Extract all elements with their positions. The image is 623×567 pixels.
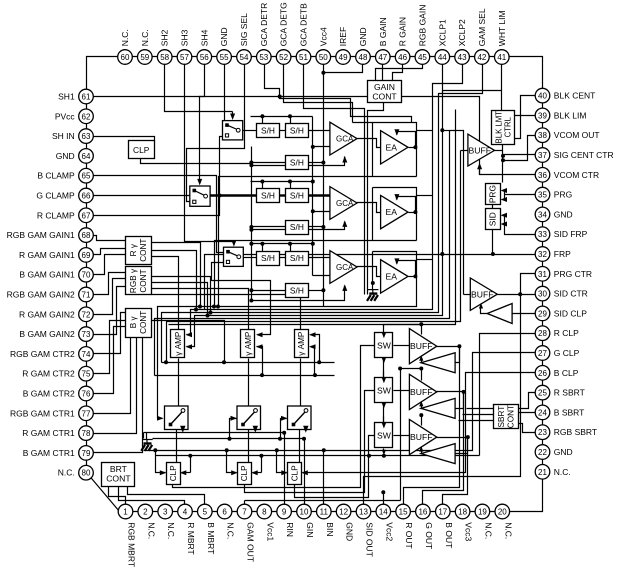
wire B gamma CONT out (152, 321, 225, 363)
svg-text:N.C.: N.C. (554, 467, 571, 477)
arrowhead (501, 188, 508, 193)
svg-text:12: 12 (339, 508, 348, 517)
pin 77 RGB GAM CTR1 (79, 406, 94, 421)
wire R gamma CONT out1 (152, 243, 201, 307)
svg-text:43: 43 (458, 53, 467, 62)
svg-text:44: 44 (438, 53, 447, 62)
block SW 3 (375, 423, 393, 448)
svg-text:SW: SW (377, 431, 392, 441)
svg-text:S/H: S/H (261, 191, 275, 201)
arrowhead (382, 423, 386, 429)
arrowhead (281, 416, 288, 421)
wire TB join (143, 433, 145, 439)
wire clamp bus to S/H C3 (252, 290, 286, 292)
svg-text:29: 29 (538, 309, 547, 318)
pin 63 SH IN (79, 129, 94, 144)
junction (317, 360, 321, 364)
wire to GCA1 lower in (313, 146, 330, 148)
pin 80 N.C. (79, 465, 94, 480)
wire gamma AMP1 to switch (178, 359, 180, 407)
op-amp EA2 (381, 195, 408, 228)
wire S/H B3 top stub (290, 244, 292, 252)
svg-text:RGB SBRT: RGB SBRT (554, 427, 597, 437)
svg-text:28: 28 (538, 329, 547, 338)
svg-text:SH1: SH1 (58, 92, 75, 102)
svg-text:RGB GAM CTR1: RGB GAM CTR1 (10, 408, 75, 418)
pin 49 IREF (336, 50, 351, 65)
svg-text:GND: GND (345, 522, 355, 541)
wire IREF (324, 65, 363, 73)
svg-text:GCA: GCA (336, 135, 354, 144)
pin 22 GND (535, 445, 550, 460)
wire SW3 to BUFF (394, 435, 410, 437)
arrowhead (251, 470, 258, 475)
arrowhead (419, 446, 423, 452)
pin 72 R GAM GAIN2 (79, 307, 94, 322)
svg-text:Vcc3: Vcc3 (464, 522, 474, 541)
block B gamma CONT (126, 309, 152, 338)
block PRG (486, 184, 501, 205)
pin 73 B GAM GAIN2 (79, 327, 94, 342)
pin 47 B GAIN (376, 50, 391, 65)
arrowhead (253, 426, 258, 433)
svg-text:25: 25 (538, 389, 547, 398)
svg-text:SID: SID (488, 212, 498, 226)
svg-text:G CLAMP: G CLAMP (36, 191, 75, 201)
pin 4 R MBRT (178, 504, 193, 519)
wire SW1 top (383, 326, 385, 333)
wire Vcc4 drop (323, 65, 325, 307)
pin 10 GIN (297, 504, 312, 519)
wire pin79 riser (94, 337, 143, 453)
svg-text:42: 42 (477, 53, 486, 62)
wire VCOM CTR feedback (480, 169, 536, 175)
wire EA1 loop left (372, 123, 374, 177)
wire Vcc2 riser (383, 493, 385, 505)
junction (419, 322, 423, 326)
junction (288, 242, 292, 246)
wire inv3 feedback (421, 450, 422, 454)
wire switch1 to CLP1 (176, 430, 178, 463)
svg-text:38: 38 (538, 131, 547, 140)
junction (501, 154, 505, 158)
wire to B OUT (443, 438, 468, 505)
junction (313, 373, 317, 377)
pin 1 RGB MBRT (118, 504, 133, 519)
svg-text:GAM OUT: GAM OUT (246, 522, 256, 562)
pin 31 PRG CTR (535, 267, 550, 282)
svg-text:XCLP1: XCLP1 (437, 19, 447, 46)
svg-text:20: 20 (498, 508, 507, 517)
svg-text:SH2: SH2 (160, 29, 170, 46)
junction (321, 161, 325, 165)
ground analog GND under EA3 (368, 289, 379, 291)
switch input select row1 (223, 121, 243, 140)
svg-text:2: 2 (143, 508, 148, 517)
wire EA2 loop top (373, 188, 417, 241)
wire R CLP to TB4 (480, 334, 536, 456)
svg-text:BRT: BRT (110, 464, 128, 474)
pin 70 B GAM GAIN1 (79, 267, 94, 282)
block SBRT CONT (494, 405, 519, 429)
svg-text:Vcc4: Vcc4 (318, 27, 328, 46)
wire EA3 out run (158, 306, 417, 419)
block CLP 2 (output clamp) (238, 463, 252, 485)
block GAIN CONT (368, 81, 402, 103)
block R gamma CONT (126, 237, 152, 265)
ground GND bottom-left (142, 439, 153, 441)
pin 69 R GAM GAIN1 (79, 248, 94, 263)
junction (278, 437, 282, 441)
buffer BUFF out 1 (409, 329, 436, 364)
pin 54 SIG SEL (237, 50, 252, 65)
svg-text:8: 8 (262, 508, 267, 517)
junction (311, 242, 315, 246)
wire gamma AMP3 to switch (300, 359, 302, 407)
wire switch3 drop (304, 425, 306, 429)
pin 26 B CLP (535, 366, 550, 381)
pin 51 GCA DETB (296, 50, 311, 65)
wire CLP out (141, 159, 252, 164)
junction (413, 210, 417, 214)
block RGB gamma CONT (126, 267, 152, 295)
svg-text:SW: SW (377, 385, 392, 395)
wire (181, 430, 183, 431)
svg-text:EA: EA (386, 142, 398, 152)
pin 13 SID OUT (356, 504, 371, 519)
wire EA2 out run (215, 241, 417, 307)
block CLP 3 (output clamp) (288, 463, 302, 485)
svg-text:18: 18 (458, 508, 467, 517)
junction (321, 225, 325, 229)
svg-text:BLK CENT: BLK CENT (554, 91, 596, 101)
block S/H row2 A (257, 189, 280, 203)
svg-text:B CLAMP: B CLAMP (37, 171, 75, 181)
wire trunk T2 (155, 375, 335, 377)
pin 75 R GAM CTR2 (79, 366, 94, 381)
arrowhead (160, 470, 167, 475)
wire RIN up (284, 433, 286, 505)
pin 8 Vcc1 (257, 504, 272, 519)
pin 2 N.C. (138, 504, 153, 519)
amp inverting stage 2 (421, 398, 455, 418)
svg-text:SIG SEL: SIG SEL (239, 13, 249, 46)
pin 65 B CLAMP (79, 168, 94, 183)
svg-text:74: 74 (82, 350, 91, 359)
wire GCA DETR (265, 65, 412, 123)
svg-text:46: 46 (398, 53, 407, 62)
svg-text:53: 53 (259, 53, 268, 62)
junction (413, 145, 417, 149)
wire BLK CENT (515, 96, 536, 139)
svg-text:N.C.: N.C. (58, 468, 75, 478)
wire (232, 112, 234, 115)
wire SW2 top (383, 371, 385, 378)
junction (457, 344, 461, 348)
block S/H row2 C (286, 221, 309, 235)
svg-text:32: 32 (538, 250, 547, 259)
pin 64 GND (79, 149, 94, 164)
wire (182, 472, 191, 474)
wire trunk TB2 (153, 438, 305, 440)
svg-text:SIG CENT CTR: SIG CENT CTR (554, 150, 614, 160)
svg-text:S/H: S/H (261, 253, 275, 263)
svg-text:R GAM GAIN2: R GAM GAIN2 (19, 309, 75, 319)
svg-text:B GAM CTR2: B GAM CTR2 (23, 389, 75, 399)
pin 48 GND (356, 50, 371, 65)
svg-text:CONT: CONT (139, 239, 148, 262)
wire BRT CONT to pin5 (128, 487, 205, 505)
wire inv2 feedback (421, 404, 422, 409)
wire (304, 430, 306, 431)
svg-text:γ AMP: γ AMP (174, 331, 183, 356)
svg-text:50: 50 (319, 53, 328, 62)
svg-text:17: 17 (438, 508, 447, 517)
wire B GAIN to GAIN CONT (382, 65, 384, 81)
junction (398, 367, 402, 371)
op-amp EA1 (381, 131, 408, 164)
wire S/H A1 top stub (262, 117, 264, 124)
wire BRT CONT to pin4 (119, 487, 185, 505)
wire R SBRT (519, 393, 536, 409)
wire FRP long run (205, 255, 536, 310)
pin 57 SH3 (177, 50, 192, 65)
svg-text:16: 16 (418, 508, 427, 517)
wire bottom-right corner (503, 472, 543, 512)
wire SW2 bottom (383, 403, 385, 423)
svg-text:BLK LIM: BLK LIM (554, 110, 587, 120)
wire row2 top link (401, 368, 422, 370)
pin 34 GND (535, 207, 550, 222)
pin 37 SIG CENT CTR (535, 148, 550, 163)
wire S/H A2 to S/H B (280, 194, 286, 196)
wire (504, 191, 506, 200)
wire trunk T1 (162, 362, 335, 364)
svg-text:N.C.: N.C. (146, 522, 156, 539)
wire (503, 215, 505, 217)
svg-text:5: 5 (203, 508, 208, 517)
wire BUFF2 out (437, 391, 464, 393)
junction (322, 448, 326, 452)
svg-text:PRG: PRG (488, 185, 498, 203)
pin 43 XCLP2 (455, 50, 470, 65)
wire SH IN to CLP (94, 137, 155, 141)
svg-text:R γ: R γ (129, 243, 138, 256)
wire SW1 bottom (383, 358, 385, 378)
svg-text:CLP: CLP (240, 465, 249, 481)
wire switch3 to S/H A (244, 257, 257, 259)
svg-text:SID OUT: SID OUT (365, 522, 375, 556)
wire RGB SBRT (519, 424, 536, 433)
wire to G OUT (423, 392, 464, 505)
arrowhead (186, 344, 193, 349)
junction (518, 292, 522, 296)
wire R gamma CONT out2 (152, 251, 197, 310)
junction (311, 209, 315, 213)
svg-text:CONT: CONT (372, 92, 397, 102)
wire gain to GCA1 (252, 157, 345, 166)
arrowhead (382, 358, 386, 364)
svg-text:GND: GND (219, 27, 229, 46)
arrowhead (501, 213, 508, 218)
svg-text:EA: EA (386, 207, 398, 217)
svg-text:B GAM GAIN2: B GAM GAIN2 (19, 329, 75, 339)
wire pin70 to gamma CONT (94, 255, 126, 275)
wire SID down (492, 230, 494, 255)
svg-text:10: 10 (300, 508, 309, 517)
block S/H row3 B (286, 252, 309, 266)
svg-text:γ AMP: γ AMP (297, 331, 306, 356)
junction (249, 225, 253, 229)
svg-text:27: 27 (538, 349, 547, 358)
arrowhead (231, 470, 238, 475)
junction (288, 180, 292, 184)
pin 71 RGB GAM GAIN2 (79, 287, 94, 302)
pin 60 N.C. (118, 50, 133, 65)
wire to gamma AMP2 top (152, 289, 249, 330)
svg-text:R MBRT: R MBRT (186, 522, 196, 554)
wire CLP1 left ctl (156, 451, 166, 473)
amp inverting stage 3 (421, 444, 455, 464)
svg-text:61: 61 (82, 93, 91, 102)
svg-text:34: 34 (538, 210, 547, 219)
svg-text:CLP: CLP (169, 465, 178, 481)
svg-text:VCOM OUT: VCOM OUT (554, 130, 600, 140)
wire EA3 out (409, 276, 416, 278)
junction (275, 448, 279, 452)
wire CLP3 left ctl (277, 451, 287, 473)
wire WHT LIM to BLK LMT CTRL (501, 65, 503, 111)
junction (216, 305, 220, 309)
svg-text:FRP: FRP (554, 249, 571, 259)
arrowhead (342, 220, 347, 227)
junction (321, 288, 325, 292)
svg-text:26: 26 (538, 369, 547, 378)
svg-text:R SBRT: R SBRT (554, 388, 585, 398)
block gamma AMP 2 (241, 330, 255, 358)
pin 11 BIN (317, 504, 332, 519)
wire G CLAMP (94, 195, 190, 197)
svg-text:N.C.: N.C. (140, 29, 150, 46)
wire pin69 to gamma CONT (94, 249, 126, 255)
arrowhead (382, 378, 386, 384)
svg-text:B CLP: B CLP (554, 368, 579, 378)
svg-text:N.C.: N.C. (166, 522, 176, 539)
wire SBRT out3 (459, 420, 494, 422)
pin 40 BLK CENT (535, 88, 550, 103)
svg-text:40: 40 (538, 92, 547, 101)
junction (222, 360, 226, 364)
svg-text:R CLAMP: R CLAMP (37, 210, 75, 220)
svg-text:9: 9 (282, 508, 287, 517)
wire BRT CONT to pin1 (109, 487, 126, 505)
pin 44 XCLP1 (435, 50, 450, 65)
svg-text:S/H: S/H (261, 125, 275, 135)
junction (260, 242, 264, 246)
wire to switch3 in (281, 419, 287, 439)
svg-text:57: 57 (180, 53, 189, 62)
svg-text:35: 35 (538, 191, 547, 200)
svg-text:58: 58 (160, 53, 169, 62)
svg-text:BLK LMT: BLK LMT (494, 111, 503, 144)
block SW 1 (375, 333, 393, 358)
wire bottom pin ring (126, 511, 503, 513)
wire (503, 199, 505, 201)
svg-text:R CLP: R CLP (554, 328, 579, 338)
svg-text:23: 23 (538, 428, 547, 437)
wire GIN up (304, 439, 306, 505)
wire EA3 feedback (397, 261, 416, 277)
svg-text:7: 7 (242, 508, 247, 517)
wire SH2 to switch1 clock (165, 65, 233, 112)
svg-text:56: 56 (200, 53, 209, 62)
svg-text:64: 64 (82, 152, 91, 161)
wire inv1 in (456, 347, 460, 363)
wire TB4 drop to CLP ctl (261, 456, 263, 473)
wire SBRT out1 (467, 408, 494, 410)
block gamma AMP 1 (171, 330, 185, 358)
wire EA2 out (409, 212, 416, 214)
svg-text:Vcc1: Vcc1 (265, 522, 275, 541)
wire switch3 to CLP3 (299, 430, 301, 463)
pin 19 N.C. (475, 504, 490, 519)
pin 46 R GAIN (395, 50, 410, 65)
svg-text:33: 33 (538, 230, 547, 239)
wire trunk TB4 / R CLP wrap (156, 455, 480, 457)
wire S/H A3 top stub (262, 244, 264, 252)
pin 7 GAM OUT (237, 504, 252, 519)
svg-text:BUFF: BUFF (471, 289, 493, 299)
svg-text:γ AMP: γ AMP (244, 331, 253, 356)
svg-text:GIN: GIN (305, 522, 315, 537)
svg-text:S/H: S/H (290, 222, 304, 232)
block BRT CONT (102, 463, 135, 487)
pin 29 SID CLP (535, 306, 550, 321)
pin 32 FRP (535, 247, 550, 262)
wire clamp bus to S/H C2 (252, 226, 286, 228)
junction (382, 454, 386, 458)
switch gamma bypass 2 (237, 406, 261, 430)
wire to GCA3 lower in (313, 275, 330, 277)
pin 53 GCA DETR (257, 50, 272, 65)
block gamma AMP 3 (295, 330, 309, 358)
wire BUFF3 out (437, 437, 468, 439)
wire GAM SEL (162, 65, 483, 363)
wire XCLP1 (187, 65, 443, 347)
wire EA1 link right (417, 130, 433, 132)
wire row3 top bus (251, 243, 313, 245)
svg-text:S/H: S/H (290, 191, 304, 201)
wire pin72 to gamma CONT (94, 279, 126, 315)
block BLK LMT CTRL (492, 111, 515, 145)
wire SW3 bottom stub (383, 449, 385, 451)
junction (440, 252, 444, 256)
svg-text:22: 22 (538, 448, 547, 457)
junction (225, 448, 229, 452)
junction (381, 490, 385, 494)
arrowhead (419, 355, 423, 361)
svg-text:45: 45 (418, 53, 427, 62)
op-amp GCA1 (330, 122, 357, 155)
arrowhead (180, 426, 185, 433)
svg-text:S/H: S/H (290, 158, 304, 168)
pin 18 Vcc3 (455, 504, 470, 519)
wire BLK LIM (515, 115, 536, 117)
svg-text:55: 55 (220, 53, 229, 62)
svg-text:Vcc2: Vcc2 (384, 522, 394, 541)
svg-text:B GAM GAIN1: B GAM GAIN1 (19, 270, 75, 280)
pin 6 N.C. (217, 504, 232, 519)
